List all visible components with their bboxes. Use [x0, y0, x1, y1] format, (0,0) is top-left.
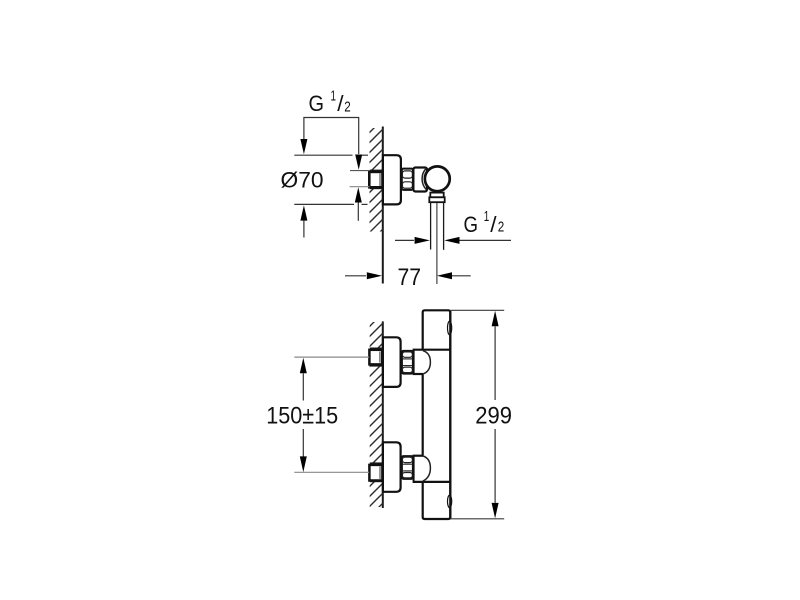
lower recess hole lines	[370, 463, 383, 481]
svg-text:G: G	[464, 212, 479, 237]
outlet collar (top drawing)	[429, 197, 444, 202]
rear ball arc (top drawing)	[422, 168, 426, 189]
arrow up to thread bottom	[355, 187, 362, 221]
flange diameter top extension line	[294, 154, 368, 156]
dimension 77 line left	[345, 272, 382, 279]
svg-text:2: 2	[344, 98, 351, 115]
thread top extension line	[350, 170, 370, 172]
lower escutcheon	[383, 442, 401, 492]
outlet neck (top drawing)	[430, 193, 443, 198]
arrow down to flange top	[300, 139, 307, 154]
upper union nut	[402, 351, 413, 374]
body right edge overdraw	[449, 311, 451, 518]
pipe G1/2 dim arrow right	[444, 237, 511, 244]
svg-text:Ø70: Ø70	[281, 168, 324, 193]
upper S-union connector	[413, 350, 451, 374]
299 dim top extension line	[451, 309, 504, 311]
lower S-union connector	[413, 456, 451, 482]
wall (top drawing)	[382, 127, 384, 284]
flange diameter bottom extension line	[294, 203, 367, 205]
union hex nut (top drawing)	[402, 169, 413, 190]
wall recess hole lines (top drawing)	[370, 170, 383, 188]
svg-text:77: 77	[398, 264, 422, 291]
label G 1/2 (top)	[309, 87, 351, 116]
299 dim bottom extension line	[451, 518, 504, 520]
svg-text:1: 1	[331, 87, 337, 104]
pipe G1/2 dim arrow left	[395, 237, 430, 244]
svg-text:2: 2	[498, 219, 505, 236]
lower supply square fitting	[369, 465, 382, 481]
body bar	[423, 310, 451, 519]
wall hatching (lower drawing)	[364, 308, 388, 522]
upper escutcheon	[383, 337, 401, 387]
thread bottom extension line	[350, 186, 370, 188]
pipe centerline	[436, 203, 438, 284]
valve knob circle (top drawing)	[425, 166, 450, 191]
upper supply square fitting	[369, 350, 382, 365]
150 dim top extension line	[294, 356, 369, 358]
screw cap top	[448, 321, 452, 335]
svg-text:/: /	[490, 212, 497, 237]
label G 1/2 (pipe)	[464, 208, 505, 237]
lower union nut	[402, 456, 413, 479]
outlet pipe (top drawing)	[431, 202, 444, 250]
wall (lower drawing)	[382, 321, 384, 508]
svg-text:1: 1	[484, 208, 490, 225]
wall hatching (top drawing)	[364, 114, 388, 258]
dimension 77 line right	[437, 272, 471, 279]
150 dim bottom extension line	[294, 471, 369, 473]
G1/2 top bracket	[304, 118, 359, 155]
svg-text:G: G	[309, 91, 325, 116]
arrow down to thread top	[355, 155, 362, 170]
wall escutcheon flange (top drawing)	[383, 155, 401, 204]
150 dim line with arrows	[300, 358, 307, 472]
svg-text:299: 299	[475, 402, 512, 429]
arrow up to flange bottom	[300, 205, 307, 237]
299 dim line with arrows	[492, 311, 499, 519]
svg-text:150±15: 150±15	[266, 403, 338, 430]
supply square fitting (top drawing)	[369, 172, 382, 187]
upper recess hole lines	[370, 348, 383, 365]
screw cap bottom	[448, 495, 452, 508]
valve body block (top drawing)	[413, 168, 427, 192]
